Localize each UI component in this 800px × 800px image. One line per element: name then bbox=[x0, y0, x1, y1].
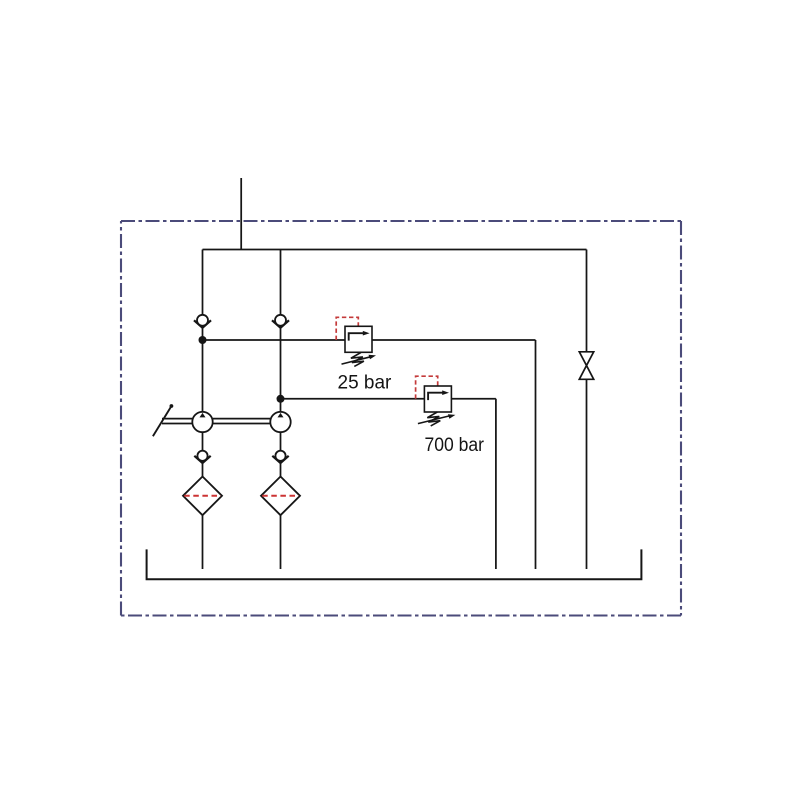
svg-text:700 bar: 700 bar bbox=[425, 435, 485, 456]
svg-text:25 bar: 25 bar bbox=[338, 373, 393, 394]
